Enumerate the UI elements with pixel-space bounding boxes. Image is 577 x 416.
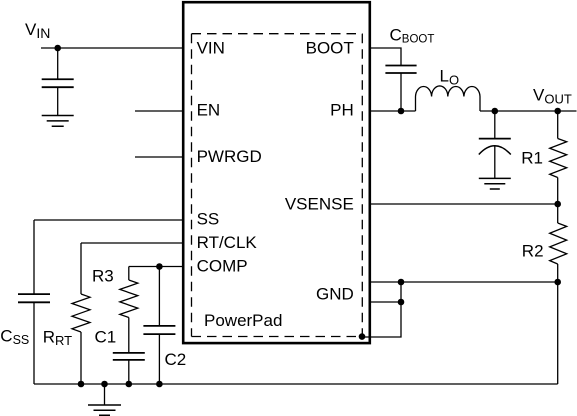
inductor LO (416, 86, 481, 111)
svg-text:PH: PH (330, 101, 354, 120)
wire ground-rail (34, 383, 558, 385)
svg-text:PowerPad: PowerPad (204, 311, 282, 330)
node PowerPad-junction (359, 333, 366, 340)
node GND2-junction (398, 299, 405, 306)
svg-text:LO: LO (440, 67, 460, 88)
svg-text:CBOOT: CBOOT (390, 26, 435, 46)
wire GND2 (370, 301, 401, 303)
svg-text:SS: SS (197, 210, 220, 229)
wire VIN-input (41, 47, 183, 49)
wire gnd-stem (104, 384, 106, 405)
wire PWRGD-stub (135, 156, 183, 158)
svg-text:VIN: VIN (25, 20, 50, 41)
capacitor C2 (143, 326, 175, 334)
svg-text:R2: R2 (522, 242, 544, 261)
svg-text:C1: C1 (95, 328, 117, 347)
svg-text:RT/CLK: RT/CLK (197, 233, 258, 252)
svg-text:VIN: VIN (197, 39, 225, 58)
wire VSENSE (370, 203, 558, 205)
node VIN-junction (54, 45, 61, 52)
wire R3-top-lead (128, 267, 130, 281)
wire RRT-top-lead (80, 243, 82, 294)
wire C2-bottom-lead (158, 334, 160, 384)
capacitor Cin (42, 79, 74, 87)
wire CBOOT-bottom-lead (400, 73, 402, 111)
resistor R2 (550, 223, 567, 264)
ground bottom (88, 405, 121, 415)
wire SS (34, 219, 183, 221)
node rail-C1 (126, 381, 133, 388)
wire LO-to-VOUT (480, 110, 577, 112)
svg-text:COMP: COMP (197, 256, 248, 275)
capacitor CSS (18, 294, 50, 302)
wire Cout-top-lead (494, 111, 496, 139)
svg-text:VSENSE: VSENSE (285, 195, 354, 214)
resistor R3 (120, 280, 138, 318)
ground input (42, 116, 74, 127)
node GND-R2-junction (554, 279, 561, 286)
wire GND-bus-vertical (362, 282, 401, 337)
wire BOOT (370, 48, 401, 66)
svg-text:C2: C2 (165, 350, 187, 369)
svg-text:VOUT: VOUT (533, 86, 572, 107)
wire R1-bottom-lead (557, 178, 559, 205)
wire R3-C1-lead (128, 318, 130, 353)
wire COMP (129, 266, 183, 268)
wire Cout-bottom-lead (494, 146, 496, 178)
node rail-gnd (101, 381, 108, 388)
capacitor CBOOT (385, 66, 416, 74)
node GND-bus-junction (398, 279, 405, 286)
node rail-C2 (156, 381, 163, 388)
node COMP-C2-junction (156, 263, 163, 270)
wire R2-top-lead (557, 204, 559, 223)
svg-text:CSS: CSS (0, 326, 29, 346)
ground output (479, 178, 511, 189)
IC U1 regulator outer body (183, 2, 370, 343)
wire EN-stub (135, 110, 183, 112)
svg-text:GND: GND (316, 284, 354, 303)
capacitor Cout (479, 138, 511, 140)
wire RT/CLK (81, 242, 183, 244)
svg-text:RRT: RRT (43, 328, 72, 348)
svg-text:BOOT: BOOT (306, 39, 354, 58)
resistor RRT (72, 294, 90, 332)
node Cout-junction (492, 108, 499, 115)
svg-text:EN: EN (197, 101, 221, 120)
node VOUT-junction (554, 108, 561, 115)
svg-text:R1: R1 (521, 149, 543, 168)
wire RRT-bottom-lead (80, 332, 82, 384)
wire R1-top-lead (557, 111, 559, 139)
IC U1 dashed pin boundary (192, 34, 363, 337)
node VSENSE-junction (554, 201, 561, 208)
wire CSS-bottom-lead (33, 302, 35, 384)
wire R2-bottom-lead (557, 264, 559, 282)
wire C2-top-lead (158, 267, 160, 326)
node rail-RRT (78, 381, 85, 388)
resistor R1 (550, 139, 567, 178)
wire PH (370, 110, 416, 112)
wire Cin-bottom-lead (57, 87, 59, 115)
capacitor C1 (113, 353, 145, 360)
wire Cin-top-lead (57, 48, 59, 79)
wire GND (370, 281, 558, 283)
svg-text:R3: R3 (92, 267, 114, 286)
wire C1-bottom-lead (128, 360, 130, 384)
wire CSS-top-lead (33, 220, 35, 294)
node PH-junction (398, 108, 405, 115)
wire right-drop (557, 282, 559, 384)
svg-text:PWRGD: PWRGD (197, 147, 262, 166)
